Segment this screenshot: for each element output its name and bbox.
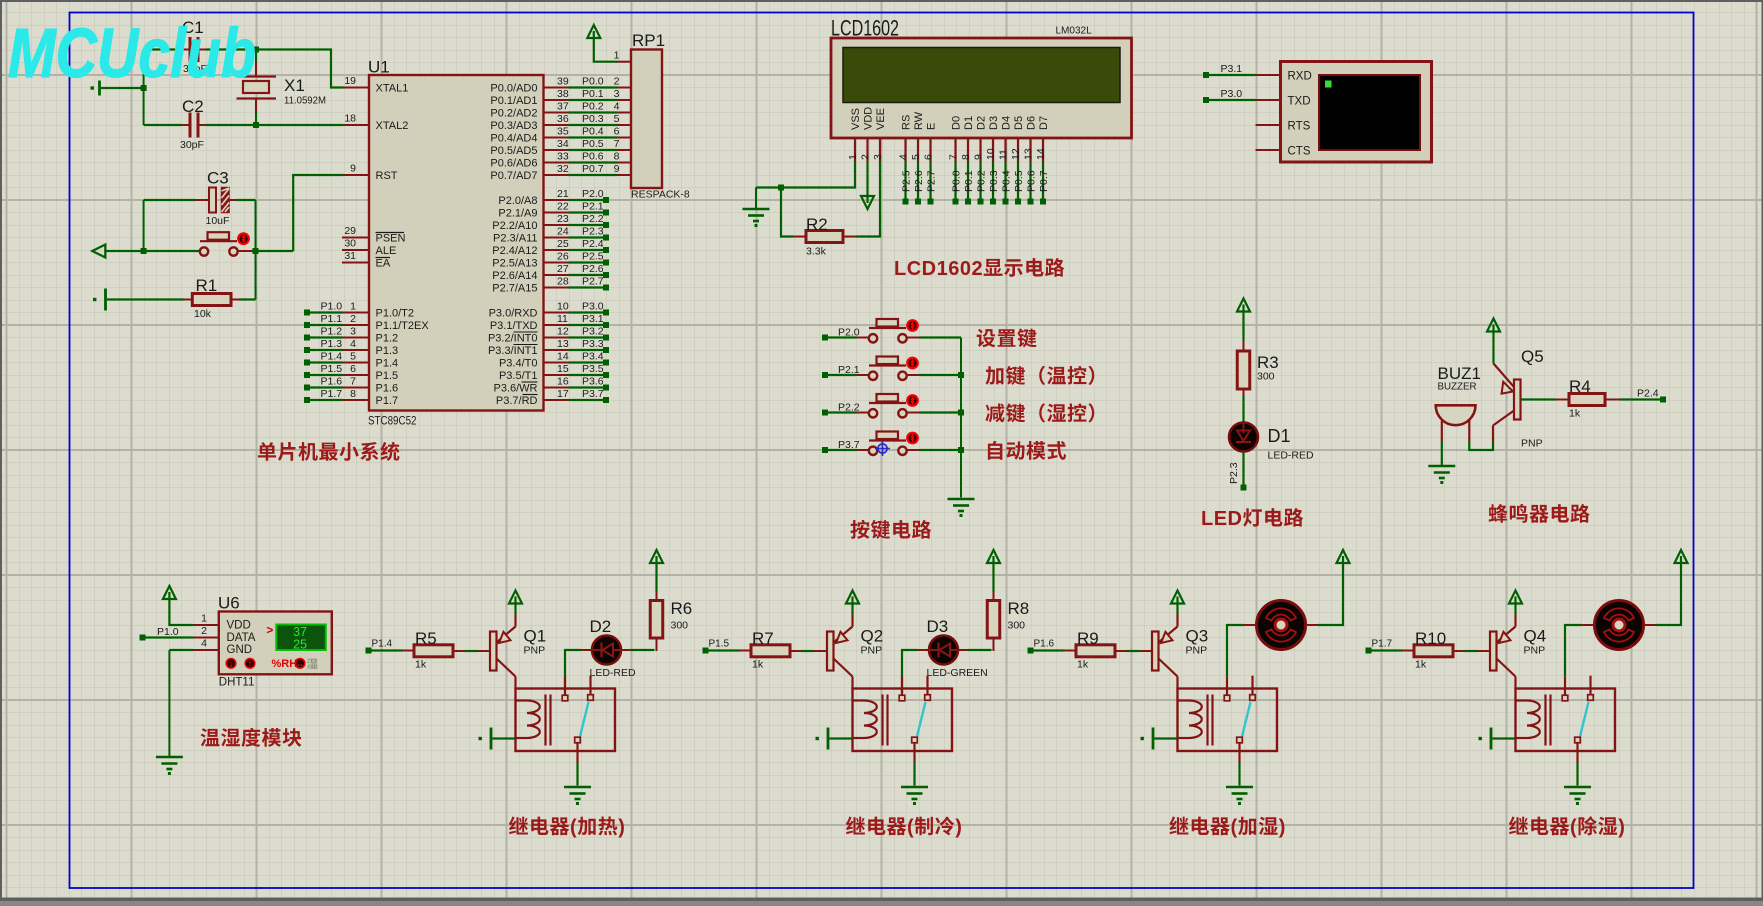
svg-text:P0.7: P0.7 — [582, 163, 604, 175]
svg-text:DHT11: DHT11 — [219, 677, 255, 689]
svg-text:30: 30 — [344, 238, 356, 250]
svg-text:3.3k: 3.3k — [806, 246, 827, 258]
svg-text:): ) — [955, 817, 962, 839]
svg-text:1k: 1k — [752, 659, 764, 671]
svg-text:P2.2: P2.2 — [838, 402, 860, 414]
svg-text:6: 6 — [923, 154, 935, 160]
svg-text:ALE: ALE — [376, 245, 397, 257]
svg-text:P1.3: P1.3 — [376, 345, 399, 357]
svg-text:13: 13 — [557, 338, 569, 350]
svg-text:P1.0/T2: P1.0/T2 — [376, 308, 415, 320]
svg-text:↓: ↓ — [229, 659, 234, 669]
svg-text:DATA: DATA — [227, 632, 256, 644]
svg-text:P3.7: P3.7 — [582, 388, 604, 400]
svg-text:P2.5: P2.5 — [582, 250, 604, 262]
svg-text:RST: RST — [376, 170, 398, 182]
svg-text:P3.7/RD: P3.7/RD — [496, 395, 538, 407]
svg-text:5: 5 — [614, 113, 620, 125]
svg-text:TXD: TXD — [1288, 96, 1311, 108]
svg-text:6: 6 — [614, 125, 620, 137]
svg-text:32: 32 — [557, 163, 569, 175]
svg-text:U6: U6 — [218, 594, 240, 613]
svg-text:P0.5: P0.5 — [582, 138, 604, 150]
svg-text:PNP: PNP — [861, 645, 883, 657]
svg-text:P3.0: P3.0 — [1221, 88, 1243, 100]
svg-text:P1.0: P1.0 — [157, 626, 179, 638]
svg-text:): ) — [1618, 817, 1625, 839]
svg-text:P0.6: P0.6 — [582, 150, 604, 162]
svg-text:25: 25 — [293, 638, 307, 652]
svg-text:P1.7: P1.7 — [376, 395, 399, 407]
svg-text:1k: 1k — [1077, 659, 1089, 671]
svg-text:XTAL2: XTAL2 — [376, 120, 409, 132]
svg-text:1: 1 — [350, 300, 356, 312]
svg-text:P2.3/A11: P2.3/A11 — [493, 233, 537, 245]
svg-text:VDD: VDD — [227, 620, 251, 632]
svg-text:1: 1 — [201, 613, 207, 625]
svg-text:P1.5: P1.5 — [376, 370, 399, 382]
svg-text:13: 13 — [1023, 148, 1035, 160]
svg-text:14: 14 — [557, 350, 569, 362]
svg-text:P0.2: P0.2 — [582, 100, 604, 112]
svg-text:E: E — [926, 123, 938, 130]
svg-text:300: 300 — [1257, 371, 1275, 383]
svg-text:P2.7: P2.7 — [582, 275, 604, 287]
svg-text:1: 1 — [847, 154, 859, 160]
svg-text:P3.1/TXD: P3.1/TXD — [490, 320, 538, 332]
svg-text:LCD1602: LCD1602 — [894, 258, 983, 280]
svg-text:EA: EA — [376, 258, 391, 270]
svg-text:D2: D2 — [976, 116, 988, 130]
svg-text:P0.5/AD5: P0.5/AD5 — [490, 145, 537, 157]
svg-text:2: 2 — [350, 313, 356, 325]
svg-text:7: 7 — [948, 154, 960, 160]
svg-text:P1.7: P1.7 — [321, 388, 343, 400]
svg-text:P1.1: P1.1 — [321, 313, 343, 325]
svg-text:P1.6: P1.6 — [376, 383, 399, 395]
svg-text:P2.4/A12: P2.4/A12 — [492, 245, 537, 257]
svg-text:P2.0/A8: P2.0/A8 — [498, 195, 537, 207]
svg-text:P3.5/T1: P3.5/T1 — [499, 370, 538, 382]
svg-text:10: 10 — [985, 148, 997, 160]
svg-text:P3.2/INT0: P3.2/INT0 — [488, 333, 538, 345]
svg-text:11: 11 — [557, 313, 568, 325]
svg-text:VEE: VEE — [875, 108, 887, 130]
svg-text:10: 10 — [557, 300, 569, 312]
svg-text:17: 17 — [557, 388, 569, 400]
svg-text:XTAL1: XTAL1 — [376, 83, 409, 95]
svg-text:R2: R2 — [806, 215, 828, 234]
svg-text:P1.4: P1.4 — [321, 350, 343, 362]
svg-text:9: 9 — [614, 163, 620, 175]
svg-text:12: 12 — [557, 325, 569, 337]
svg-text:23: 23 — [557, 213, 569, 225]
svg-text:3: 3 — [872, 154, 884, 160]
svg-text:P1.5: P1.5 — [709, 639, 730, 650]
svg-text:PNP: PNP — [524, 645, 546, 657]
svg-text:R1: R1 — [196, 276, 218, 295]
svg-text:U1: U1 — [368, 58, 390, 77]
svg-text:P1.4: P1.4 — [372, 639, 393, 650]
svg-text:D3: D3 — [988, 116, 1000, 130]
svg-text:(: ( — [1570, 817, 1577, 839]
svg-text:RXD: RXD — [1288, 71, 1312, 83]
svg-text:D1: D1 — [1268, 426, 1291, 446]
svg-text:P2.1: P2.1 — [582, 200, 604, 212]
svg-text:39: 39 — [557, 75, 569, 87]
svg-text:34: 34 — [557, 138, 569, 150]
svg-text:2: 2 — [201, 625, 207, 637]
svg-text:P2.3: P2.3 — [582, 225, 604, 237]
svg-text:D1: D1 — [963, 116, 975, 130]
svg-text:P2.1/A9: P2.1/A9 — [498, 208, 537, 220]
svg-text:VSS: VSS — [850, 108, 862, 130]
svg-text:P2.1: P2.1 — [838, 364, 860, 376]
svg-text:11.0592M: 11.0592M — [284, 95, 326, 107]
svg-text:MCUclub: MCUclub — [8, 14, 256, 92]
svg-text:P2.6/A14: P2.6/A14 — [492, 270, 537, 282]
svg-text:P1.6: P1.6 — [1034, 639, 1055, 650]
svg-text:>: > — [267, 625, 274, 637]
svg-text:RTS: RTS — [1288, 121, 1311, 133]
svg-text:%RH: %RH — [272, 658, 298, 670]
svg-text:P3.4: P3.4 — [582, 350, 604, 362]
svg-text:P3.2: P3.2 — [582, 325, 604, 337]
svg-text:P3.1: P3.1 — [1221, 63, 1243, 75]
svg-text:35: 35 — [557, 125, 569, 137]
svg-text:PNP: PNP — [1521, 438, 1543, 450]
svg-text:9: 9 — [350, 163, 356, 175]
svg-text:21: 21 — [557, 188, 569, 200]
svg-text:CTS: CTS — [1288, 146, 1311, 158]
svg-text:28: 28 — [557, 275, 569, 287]
svg-text:11: 11 — [998, 149, 1010, 160]
svg-text:P0.0: P0.0 — [582, 75, 604, 87]
svg-text:P0.3: P0.3 — [582, 113, 604, 125]
svg-text:P0.3/AD3: P0.3/AD3 — [490, 120, 537, 132]
svg-text:1: 1 — [614, 50, 620, 62]
svg-text:P0.0/AD0: P0.0/AD0 — [490, 83, 537, 95]
svg-text:Q4: Q4 — [1524, 627, 1547, 646]
svg-text:BUZZER: BUZZER — [1438, 381, 1477, 393]
svg-text:14: 14 — [1035, 148, 1047, 160]
svg-text:P1.2: P1.2 — [376, 333, 399, 345]
svg-text:P2.4: P2.4 — [1637, 388, 1659, 400]
svg-text:P3.0: P3.0 — [582, 300, 604, 312]
svg-text:5: 5 — [350, 350, 356, 362]
svg-text:): ) — [1279, 817, 1286, 839]
svg-text:LED-GREEN: LED-GREEN — [927, 667, 988, 679]
svg-text:↑: ↑ — [248, 659, 253, 669]
svg-text:4: 4 — [350, 338, 356, 350]
svg-text:D6: D6 — [1026, 116, 1038, 130]
svg-text:P0.1: P0.1 — [963, 170, 975, 192]
svg-text:R6: R6 — [671, 599, 693, 618]
svg-text:8: 8 — [614, 150, 620, 162]
svg-text:P0.1: P0.1 — [582, 88, 604, 100]
svg-text:RW: RW — [913, 111, 925, 130]
svg-text:8: 8 — [960, 154, 972, 160]
svg-text:P0.5: P0.5 — [1013, 170, 1025, 192]
svg-text:5: 5 — [910, 154, 922, 160]
svg-text:P3.5: P3.5 — [582, 363, 604, 375]
svg-text:P2.5: P2.5 — [901, 170, 913, 192]
svg-text:P2.6: P2.6 — [582, 263, 604, 275]
svg-text:300: 300 — [1008, 620, 1026, 632]
svg-text:4: 4 — [898, 154, 910, 160]
svg-text:Q2: Q2 — [861, 627, 884, 646]
svg-text:LM032L: LM032L — [1056, 26, 1093, 37]
svg-text:R9: R9 — [1077, 629, 1099, 648]
svg-text:RP1: RP1 — [632, 31, 665, 50]
svg-text:P1.4: P1.4 — [376, 358, 399, 370]
svg-text:2: 2 — [860, 154, 872, 160]
svg-text:25: 25 — [557, 238, 569, 250]
svg-text:R8: R8 — [1008, 599, 1030, 618]
svg-text:1k: 1k — [1415, 659, 1427, 671]
svg-text:P3.4/T0: P3.4/T0 — [499, 358, 538, 370]
svg-text:33: 33 — [557, 150, 569, 162]
svg-text:STC89C52: STC89C52 — [368, 416, 417, 428]
svg-text:P0.6: P0.6 — [1026, 170, 1038, 192]
svg-text:31: 31 — [344, 250, 356, 262]
svg-text:PNP: PNP — [1186, 645, 1208, 657]
svg-text:10uF: 10uF — [206, 215, 230, 227]
svg-text:P0.6/AD6: P0.6/AD6 — [490, 158, 537, 170]
svg-text:D0: D0 — [951, 116, 963, 130]
svg-text:36: 36 — [557, 113, 569, 125]
svg-text:X1: X1 — [284, 76, 305, 95]
svg-text:37: 37 — [557, 100, 569, 112]
svg-text:D5: D5 — [1013, 116, 1025, 130]
svg-text:R5: R5 — [415, 629, 437, 648]
svg-text:LED: LED — [1201, 508, 1243, 530]
svg-text:P0.0: P0.0 — [951, 170, 963, 192]
svg-text:(: ( — [907, 817, 914, 839]
svg-text:P2.0: P2.0 — [838, 327, 860, 339]
svg-text:P1.2: P1.2 — [321, 325, 343, 337]
svg-text:GND: GND — [227, 644, 253, 656]
svg-text:P3.3: P3.3 — [582, 338, 604, 350]
svg-text:P2.6: P2.6 — [913, 170, 925, 192]
svg-text:P3.6/WR: P3.6/WR — [493, 383, 537, 395]
svg-text:P2.2/A10: P2.2/A10 — [492, 220, 537, 232]
svg-text:P2.7/A15: P2.7/A15 — [492, 283, 537, 295]
svg-text:4: 4 — [201, 638, 207, 650]
svg-text:P0.1/AD1: P0.1/AD1 — [490, 95, 537, 107]
svg-text:(: ( — [570, 817, 577, 839]
svg-text:15: 15 — [557, 363, 569, 375]
svg-text:LED-RED: LED-RED — [1268, 450, 1315, 462]
svg-text:P2.0: P2.0 — [582, 188, 604, 200]
svg-text:P1.7: P1.7 — [1372, 639, 1393, 650]
svg-text:24: 24 — [557, 225, 569, 237]
svg-text:D4: D4 — [1001, 116, 1013, 130]
svg-text:19: 19 — [344, 75, 356, 87]
svg-text:38: 38 — [557, 88, 569, 100]
svg-text:D2: D2 — [590, 617, 612, 636]
svg-text:18: 18 — [344, 113, 356, 125]
svg-text:(: ( — [1231, 817, 1238, 839]
svg-text:1k: 1k — [415, 659, 427, 671]
svg-text:P0.4/AD4: P0.4/AD4 — [490, 133, 537, 145]
svg-text:D3: D3 — [927, 617, 949, 636]
svg-text:PNP: PNP — [1524, 645, 1546, 657]
svg-text:P0.7/AD7: P0.7/AD7 — [490, 170, 537, 182]
svg-text:LED-RED: LED-RED — [590, 667, 637, 679]
svg-text:P3.7: P3.7 — [838, 439, 860, 451]
svg-text:30pF: 30pF — [180, 139, 204, 151]
svg-text:8: 8 — [350, 388, 356, 400]
svg-text:P1.6: P1.6 — [321, 375, 343, 387]
svg-text:12: 12 — [1010, 148, 1022, 160]
svg-text:VDD: VDD — [863, 107, 875, 130]
svg-text:P1.0: P1.0 — [321, 300, 343, 312]
svg-text:): ) — [618, 817, 625, 839]
svg-text:Q5: Q5 — [1521, 347, 1544, 366]
svg-text:P3.6: P3.6 — [582, 375, 604, 387]
svg-text:PSEN: PSEN — [376, 233, 406, 245]
svg-text:RS: RS — [901, 115, 913, 130]
svg-text:C2: C2 — [182, 97, 204, 116]
svg-text:16: 16 — [557, 375, 569, 387]
svg-text:P1.1/T2EX: P1.1/T2EX — [376, 320, 430, 332]
svg-text:P0.2: P0.2 — [976, 170, 988, 192]
svg-text:P0.4: P0.4 — [582, 125, 604, 137]
svg-text:3: 3 — [614, 88, 620, 100]
svg-text:R10: R10 — [1415, 629, 1446, 648]
svg-text:10k: 10k — [194, 308, 212, 320]
svg-text:P1.5: P1.5 — [321, 363, 343, 375]
svg-text:P2.5/A13: P2.5/A13 — [492, 258, 537, 270]
svg-text:D7: D7 — [1038, 116, 1050, 130]
svg-text:P3.0/RXD: P3.0/RXD — [489, 308, 538, 320]
svg-text:4: 4 — [614, 100, 620, 112]
svg-text:P3.1: P3.1 — [582, 313, 604, 325]
svg-text:7: 7 — [350, 375, 356, 387]
svg-text:Q1: Q1 — [524, 627, 547, 646]
svg-text:26: 26 — [557, 250, 569, 262]
svg-text:P0.7: P0.7 — [1038, 170, 1050, 192]
svg-text:27: 27 — [557, 263, 569, 275]
svg-text:7: 7 — [614, 138, 620, 150]
svg-text:P0.2/AD2: P0.2/AD2 — [490, 108, 537, 120]
svg-text:R4: R4 — [1569, 377, 1591, 396]
svg-text:22: 22 — [557, 200, 569, 212]
svg-text:P2.3: P2.3 — [1228, 462, 1240, 484]
svg-text:3: 3 — [350, 325, 356, 337]
svg-text:6: 6 — [350, 363, 356, 375]
svg-text:P2.7: P2.7 — [926, 170, 938, 192]
svg-text:P1.3: P1.3 — [321, 338, 343, 350]
svg-text:2: 2 — [614, 75, 620, 87]
svg-text:300: 300 — [671, 620, 689, 632]
svg-text:9: 9 — [973, 154, 985, 160]
svg-text:P3.3/INT1: P3.3/INT1 — [488, 345, 538, 357]
svg-text:P0.4: P0.4 — [1001, 170, 1013, 192]
svg-text:C3: C3 — [207, 169, 229, 188]
svg-text:P2.4: P2.4 — [582, 238, 604, 250]
svg-text:P2.2: P2.2 — [582, 213, 604, 225]
svg-text:Q3: Q3 — [1186, 627, 1209, 646]
svg-text:R7: R7 — [752, 629, 774, 648]
svg-text:P0.3: P0.3 — [988, 170, 1000, 192]
svg-text:29: 29 — [344, 225, 356, 237]
svg-text:R3: R3 — [1257, 353, 1279, 372]
svg-text:1k: 1k — [1569, 408, 1581, 420]
svg-text:RESPACK-8: RESPACK-8 — [631, 189, 690, 201]
